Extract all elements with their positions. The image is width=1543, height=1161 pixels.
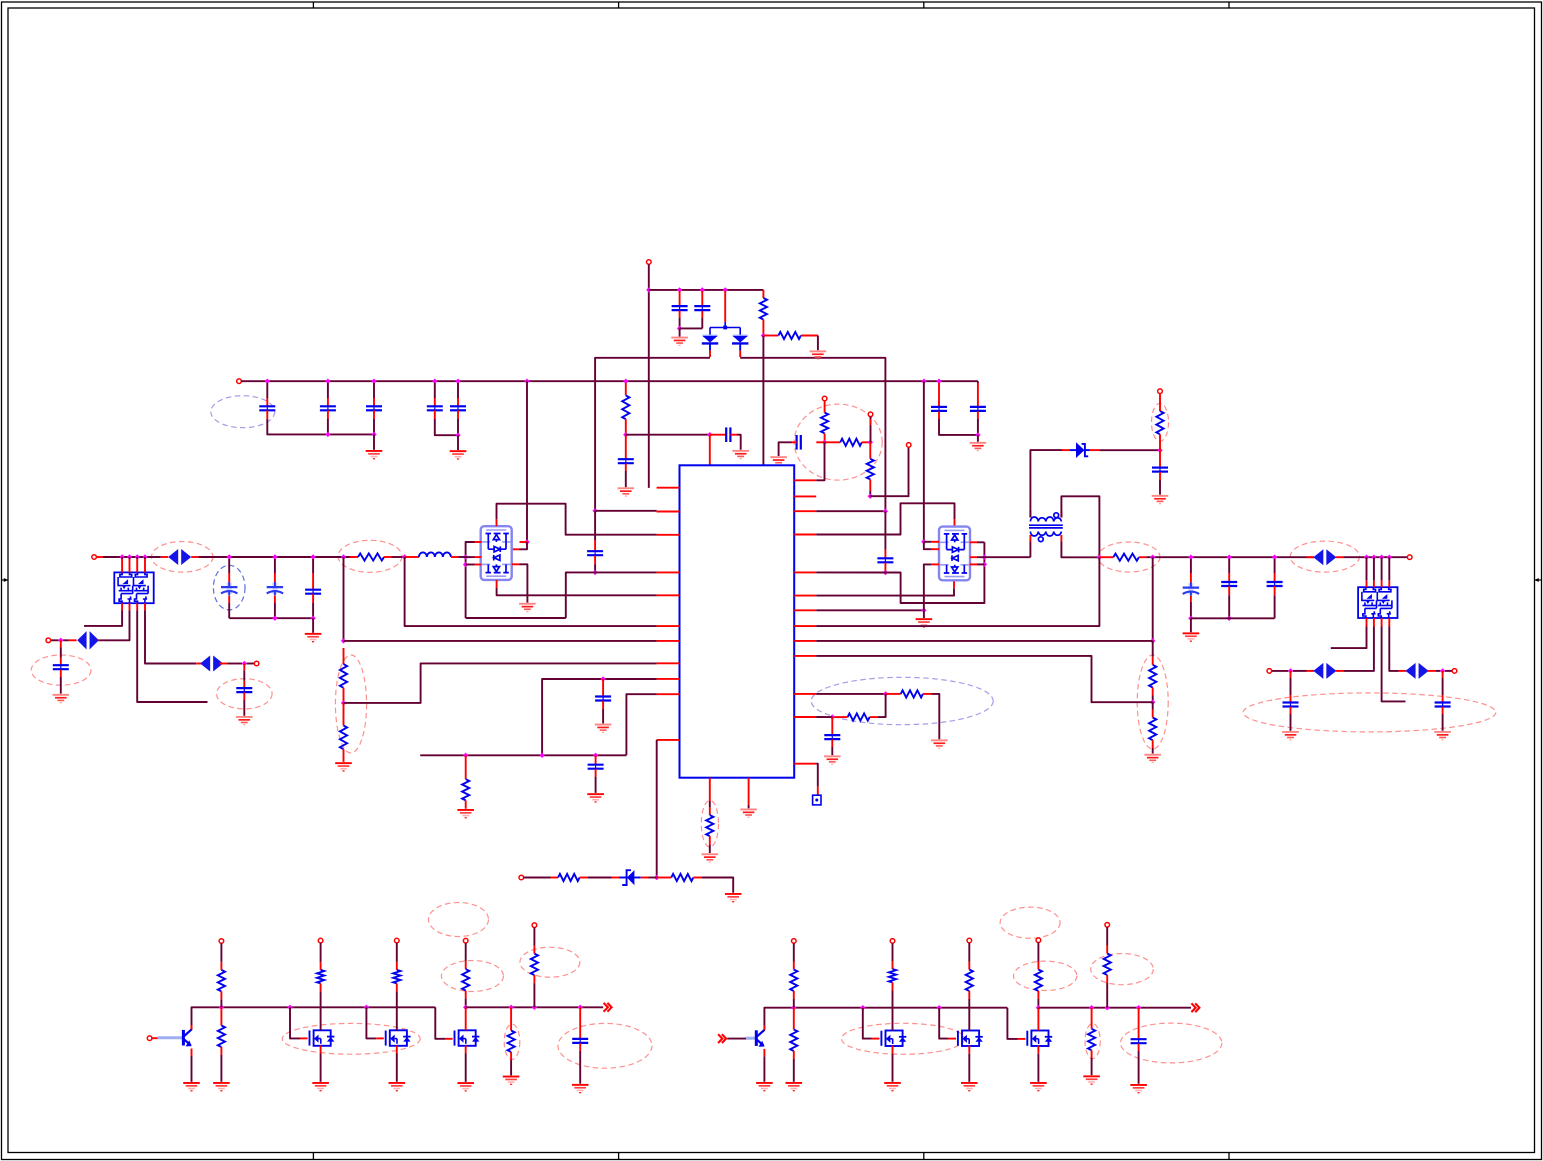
- pin R33 bottom: [1091, 1050, 1093, 1058]
- resistor R15: [1149, 718, 1156, 741]
- port feed R20: [219, 939, 224, 944]
- pin U1 left y595.3: [657, 594, 680, 596]
- junction IC BYP: [707, 432, 712, 437]
- wire L1 to U2: [458, 556, 465, 558]
- pin C15 left: [792, 441, 797, 443]
- wire cap bottom bus: [1191, 617, 1275, 619]
- pin R5c top: [869, 442, 871, 459]
- connector J2 bidirectional arrows: [1313, 549, 1336, 565]
- junction M1 gate tap: [287, 1005, 292, 1010]
- wire C26 feed: [1290, 678, 1292, 695]
- wire T1 top-right to output bus: [1061, 496, 1099, 557]
- wire U5 pin4 to arrow port: [1389, 627, 1398, 671]
- wire R25 from port: [396, 943, 398, 962]
- wire P1 down to IC pin VIN: [648, 264, 650, 488]
- wire R30 from port: [793, 943, 795, 961]
- pin cap top x274.9: [274, 573, 276, 587]
- pin C14 bottom: [977, 411, 979, 419]
- junction C20 tap: [578, 1005, 583, 1010]
- pin R22 top: [533, 946, 535, 954]
- wire to port: [247, 663, 255, 665]
- wire R21 to bus dot: [465, 999, 467, 1008]
- node diode link: [723, 326, 727, 330]
- junction R32 tap: [1105, 1005, 1110, 1010]
- ground GND2: [810, 350, 827, 359]
- pin arrow left2: [196, 663, 204, 665]
- wire C26 to ground: [1290, 714, 1292, 731]
- junction C16 bottom: [592, 570, 597, 575]
- wire node A down to C16: [594, 511, 596, 540]
- resistor R22: [531, 954, 538, 976]
- pin R5c bottom: [869, 479, 871, 491]
- wire C11 feed: [243, 671, 245, 681]
- wire R31 from port: [1037, 943, 1039, 962]
- junction M3 drain: [463, 1005, 468, 1010]
- pin U1 left y534.8: [657, 534, 680, 536]
- transistor M6 N-MOSFET: [1027, 1031, 1048, 1047]
- transistor M2 N-MOSFET: [386, 1030, 407, 1046]
- pin R20 bottom: [220, 991, 222, 999]
- transistor M3 N-MOSFET: [455, 1030, 476, 1046]
- pin C21 top: [1138, 1008, 1140, 1039]
- pin R11b right: [870, 716, 878, 718]
- transistor U5 quad FET protection block (right): [1358, 587, 1397, 618]
- wire R24 to M1 drain: [320, 991, 322, 1030]
- highlight ellipse around resistor R32: [1091, 954, 1154, 985]
- pin U1 right y626.1: [794, 625, 816, 627]
- wire R22 to bus: [533, 983, 535, 1007]
- capacitor at x434.8: [427, 406, 443, 410]
- pin D1 cathode: [709, 351, 711, 357]
- ground GND23: [236, 716, 253, 725]
- capacitor polarized x274.9: [267, 582, 283, 595]
- wire D1 cathode to node A: [595, 358, 710, 511]
- pin U4 right3: [970, 563, 977, 565]
- pin C28 bottom: [831, 740, 833, 748]
- pin C24 top: [1228, 573, 1230, 582]
- resistor R32: [1104, 954, 1111, 976]
- capacitor C24: [1221, 582, 1237, 586]
- pin arrow right: [1336, 556, 1344, 558]
- highlight ellipse around bulk cap C6: [213, 565, 245, 610]
- pin C13 bottom: [938, 411, 940, 419]
- pin U1 bottom 1: [709, 778, 711, 801]
- ground GND13: [587, 793, 604, 802]
- ground GND21: [1183, 632, 1200, 641]
- highlight ellipse around left bus arrow port: [152, 542, 213, 573]
- pin C18 top: [595, 755, 597, 764]
- wire M6 source to ground: [1037, 1054, 1039, 1082]
- wire cap bottom x313.1: [312, 603, 314, 618]
- junction output bus x1190.9: [1188, 555, 1193, 560]
- wire IC pin to R14/R15 node: [816, 656, 1152, 702]
- pin C23 bottom: [1190, 596, 1192, 602]
- pin M6 source: [1037, 1046, 1039, 1054]
- highlight ellipse around RC network top-right: [794, 404, 882, 480]
- pin M6 gate: [1018, 1038, 1026, 1040]
- junction C13 on VCC bus: [921, 379, 926, 384]
- port P4: [868, 412, 873, 417]
- port chevron in right row: [718, 1034, 726, 1043]
- wire R26 from port: [892, 943, 894, 961]
- port P12: [1267, 669, 1272, 674]
- wire R21b to ground: [220, 1055, 222, 1082]
- wire C27 feed: [1442, 678, 1444, 695]
- pin C24 bottom: [1228, 586, 1230, 595]
- junction R33 tap: [1089, 1005, 1094, 1010]
- pin C22 top: [1159, 450, 1161, 467]
- pin C16 bottom: [594, 556, 596, 565]
- junction bus/U2 b: [463, 562, 468, 567]
- junction C14 on VCC bus: [936, 379, 941, 384]
- ground GND10: [335, 762, 352, 771]
- wire to ground: [679, 328, 681, 336]
- wire HV bus y290: [649, 289, 764, 291]
- resistor R7: [340, 726, 347, 750]
- wire U4 right2: [977, 556, 984, 558]
- pin R1 top: [762, 290, 764, 298]
- wire R20 from port: [220, 943, 222, 962]
- wire EN node to IC left pin: [344, 640, 657, 642]
- wire Q1 collector to bus: [192, 1007, 222, 1030]
- junction C10 tap: [58, 638, 63, 643]
- pin C2 bottom: [679, 311, 681, 319]
- wire C3 bottom link: [680, 327, 703, 329]
- pin R24 top: [320, 962, 322, 970]
- wire cap feed x327.9: [327, 383, 329, 398]
- wire U3 pin1 stub west: [84, 610, 122, 626]
- pin arrow left4: [1399, 670, 1407, 672]
- wire IC pin to U4 top: [816, 503, 954, 534]
- wire U5 pin1 stub west: [1331, 627, 1367, 649]
- ground GND26: [931, 739, 948, 748]
- ground GND35: [756, 1082, 773, 1091]
- resistor R5c: [867, 459, 874, 480]
- port P1 HV input: [647, 260, 652, 265]
- ground GND19: [1152, 495, 1169, 504]
- wire C22 to ground: [1159, 480, 1161, 495]
- wire cap feed x274.9: [274, 559, 276, 573]
- pin U1 left y694.2: [657, 693, 680, 695]
- wire R16 to ground: [709, 845, 711, 853]
- capacitor at x267.3: [259, 406, 275, 410]
- zener diode D4: [619, 870, 641, 885]
- wire R9 to D4: [588, 877, 612, 879]
- pin U1 right y610.3: [794, 609, 816, 611]
- highlight ellipse around right bus arrow port: [1290, 541, 1359, 572]
- diode D1: [702, 336, 718, 351]
- junction C5 on VCC bus: [325, 379, 330, 384]
- wire C23 feed: [1190, 559, 1192, 573]
- junction M5 gate tap: [937, 1005, 942, 1010]
- pin R15 top: [1152, 710, 1154, 718]
- pin R8 top: [465, 755, 467, 779]
- junction R30 tap: [791, 1005, 796, 1010]
- ground GND1: [671, 337, 688, 346]
- resistor R1: [760, 298, 767, 320]
- ground GND40: [1083, 1075, 1100, 1084]
- wire R10 to ground: [702, 878, 733, 893]
- transformer T1: [1029, 513, 1063, 542]
- wire C15 to ground: [779, 442, 792, 456]
- wire arrow to dot: [1293, 670, 1307, 672]
- pin R5a top: [824, 401, 826, 413]
- wire node B down to C19: [884, 511, 886, 549]
- pin C26 stub: [1290, 671, 1292, 678]
- pin M3 drain: [465, 1007, 467, 1030]
- wire down to FB node: [1152, 557, 1154, 641]
- wire M4 source to ground: [892, 1054, 894, 1082]
- pin U1 left y511.5: [657, 511, 680, 513]
- wire C27 to ground: [1442, 714, 1444, 731]
- wire C19 bottom: [884, 571, 886, 573]
- wire Q1 base (light blue): [158, 1036, 183, 1039]
- wire R30 to bus: [793, 999, 795, 1008]
- pin R24 bottom: [320, 983, 322, 991]
- pin C21 bottom: [1138, 1044, 1140, 1051]
- pin U5 top x1389.3: [1388, 581, 1390, 588]
- pin R10 left: [657, 877, 672, 879]
- junction C6b tap: [272, 554, 277, 559]
- port P7: [519, 875, 524, 880]
- inductor L1: [419, 552, 451, 557]
- pin R7 top: [343, 703, 345, 726]
- junction C2 top: [677, 287, 682, 292]
- pin M5 source: [968, 1046, 970, 1054]
- pin R9 right: [580, 877, 588, 879]
- wire C13 bottom link: [939, 419, 978, 435]
- ground GND11: [595, 724, 612, 733]
- pin R11a right: [923, 693, 932, 695]
- pin R14 bottom: [1152, 688, 1154, 696]
- pin U1 right y595.6: [794, 595, 816, 597]
- port P11: [254, 661, 259, 666]
- pin U1 right y496.4: [794, 495, 816, 497]
- wire R1 to IC VCC top pin: [762, 336, 764, 466]
- junction R14/R15: [1150, 700, 1155, 705]
- wire C7 bottom link: [435, 419, 458, 435]
- wire U3 pin3 stub east: [137, 610, 207, 702]
- port P8: [1158, 389, 1163, 394]
- junction R5a/C15/R5b: [822, 440, 827, 445]
- connector J3 bidirectional arrows: [77, 631, 99, 649]
- pin U3 top x122.1: [121, 559, 123, 573]
- wire R23 to ground: [510, 1060, 512, 1075]
- port P10: [46, 638, 51, 643]
- pin R32 bottom: [1106, 975, 1108, 983]
- node A junction: [592, 508, 597, 513]
- wire R32 from port: [1106, 927, 1108, 945]
- port P9 output: [1407, 555, 1412, 560]
- transistor U4 half-bridge MOSFET pair (right): [939, 527, 970, 581]
- wire R22 from port: [533, 928, 535, 946]
- wire IC VOSNS to output bus: [816, 557, 1099, 626]
- pin M6 drain: [1037, 1008, 1039, 1031]
- pin U1 right y572.4: [794, 571, 816, 573]
- capacitor C11: [236, 688, 252, 692]
- pin Q2 base: [746, 1038, 752, 1040]
- resistor R9: [558, 874, 580, 881]
- pin R31 top: [1037, 962, 1039, 970]
- ground GND24: [1282, 731, 1299, 740]
- wire R25 to M2 drain: [396, 991, 398, 1030]
- pin R2 left: [763, 335, 778, 337]
- wire to ground: [1190, 618, 1192, 632]
- ground GND37: [884, 1082, 901, 1091]
- port P13: [1452, 669, 1457, 674]
- wire C23 bottom: [1190, 602, 1192, 619]
- wire R3 to L1: [392, 556, 405, 558]
- highlight ellipse around cap C20: [558, 1023, 652, 1068]
- wire C9 to ground: [625, 471, 627, 487]
- pin T1 top-right: [1060, 511, 1062, 518]
- pin C10 stub: [60, 640, 62, 647]
- pin R20 top: [220, 962, 222, 970]
- port chevron out right row: [1191, 1003, 1199, 1012]
- pin R21 top: [465, 961, 467, 969]
- pin R8 bottom: [465, 800, 467, 808]
- wire M2 source to ground: [396, 1054, 398, 1082]
- pin R1 bottom: [762, 320, 764, 336]
- pin U3 bottom x137.2: [136, 603, 138, 610]
- ground GND33: [503, 1076, 520, 1085]
- pin C20 bottom: [579, 1043, 581, 1051]
- ground GND16: [740, 809, 757, 818]
- connector J5 bidirectional arrows: [1313, 663, 1336, 679]
- pin U1 left y572.4: [657, 571, 680, 573]
- ground GND18: [970, 442, 987, 451]
- ground GND7: [770, 456, 787, 465]
- junction U2 pin D: [524, 539, 529, 544]
- pin U1 left y487.7: [657, 487, 680, 489]
- wire gate bus right row east segment: [1038, 1007, 1191, 1009]
- wire C18 to ground: [595, 777, 597, 793]
- wire U2 right3 to ground: [520, 564, 528, 602]
- pin diode pair feed: [724, 291, 726, 322]
- junction C24 bottom: [1227, 616, 1232, 621]
- pin C10 bottom: [60, 670, 62, 677]
- pin U3 bottom x122.1: [121, 603, 123, 610]
- pin R31 bottom: [1037, 991, 1039, 999]
- pin R21b top: [220, 1007, 222, 1025]
- pin C19 top: [884, 550, 886, 559]
- junction C2/C3 bottom: [677, 326, 682, 331]
- port feed R24: [318, 938, 323, 943]
- junction cap bottoms: [272, 616, 277, 621]
- pin C13 top: [938, 383, 940, 407]
- capacitor C19: [877, 558, 893, 562]
- pin C18 bottom: [595, 769, 597, 777]
- junction cap bottoms b: [310, 616, 315, 621]
- pin T1 bottom-right: [1060, 535, 1062, 542]
- wire P7 to R9: [524, 877, 551, 879]
- wire cap bottom x229.2: [228, 603, 230, 618]
- wire IC pin to R11a node: [816, 693, 885, 695]
- transistor M1 N-MOSFET: [310, 1030, 331, 1046]
- ground GND38: [961, 1082, 978, 1091]
- pin U5 bottom x1373.9: [1373, 618, 1375, 627]
- junction M2 gate tap: [364, 1005, 369, 1010]
- junction C6c tap: [310, 554, 315, 559]
- border zone ticks: [313, 2, 1229, 1160]
- pin R5b left: [825, 441, 841, 443]
- resistor R30b: [790, 1030, 797, 1052]
- empty highlight ellipse left row: [429, 903, 489, 937]
- ground GND31: [389, 1082, 406, 1091]
- wire M2 gate feed: [366, 1007, 376, 1038]
- capacitor C13: [931, 407, 947, 411]
- wire to ground: [373, 434, 375, 449]
- pin R26 top: [892, 961, 894, 969]
- resistor R13: [1113, 554, 1139, 561]
- wire R11a to ground: [932, 694, 940, 739]
- port P14: [147, 1036, 152, 1041]
- port P6 battery left: [92, 555, 97, 560]
- pin Q1 collector: [191, 1025, 193, 1029]
- capacitor at x327.9: [320, 406, 336, 410]
- capacitor C16: [587, 551, 603, 555]
- wire M5 source to ground: [968, 1054, 970, 1082]
- resistor R11b: [848, 714, 870, 721]
- junction U3 feed x137.2: [135, 554, 140, 559]
- transistor M4 N-MOSFET: [881, 1031, 902, 1047]
- wire C10 feed: [60, 648, 62, 658]
- junction output bus x1152.7: [1150, 555, 1155, 560]
- ground GND20: [1144, 754, 1161, 763]
- pin U1 right y693.9: [794, 693, 816, 695]
- junction C3 top: [700, 287, 705, 292]
- pin C12 right: [730, 434, 737, 436]
- junction C7/C8 bottom: [455, 433, 460, 438]
- wire stub U4 left1: [924, 541, 932, 543]
- junction R8 top: [463, 753, 468, 758]
- wire U2 top to IC left pin SW1: [497, 504, 657, 535]
- pin C11 top: [243, 681, 245, 689]
- pin arrow right4: [1428, 670, 1436, 672]
- resistor R14: [1149, 665, 1156, 688]
- net-tie NT1: [813, 795, 821, 805]
- wire M4 gate feed: [863, 1008, 872, 1039]
- pin M3 gate: [445, 1038, 453, 1040]
- wire IC pin east-down to y755: [626, 694, 656, 755]
- highlight ellipse around divider R14/R15: [1137, 655, 1168, 749]
- wire to port: [1272, 670, 1289, 672]
- pin C17 bottom: [602, 701, 604, 709]
- ground GND8: [519, 603, 536, 612]
- pin U1 right y511.2: [794, 510, 816, 512]
- wire M5 gate feed: [939, 1008, 948, 1039]
- pin D2 cathode: [739, 351, 741, 357]
- schottky diode D3: [1070, 442, 1090, 458]
- highlight ellipse around cap C21: [1121, 1023, 1222, 1063]
- pin C9 bottom: [625, 464, 627, 471]
- pin R4 top: [625, 383, 627, 395]
- transistor Q1 PNP: [183, 1030, 191, 1047]
- ground GND28: [183, 1082, 200, 1091]
- wire to port: [1445, 670, 1452, 672]
- junction C6 bottom: [371, 432, 376, 437]
- pin U1 right y655.9: [794, 655, 816, 657]
- pin cap bottom x374.0: [373, 410, 375, 419]
- wire U5 pin2 to arrow port: [1343, 627, 1374, 671]
- wire R4 node to IC BYP pin: [626, 434, 710, 436]
- wire C16 bottom: [594, 565, 596, 573]
- junction to block on VCC bus: [524, 379, 529, 384]
- pin C19 bottom: [884, 563, 886, 571]
- capacitor polarized x229.2: [221, 582, 237, 595]
- pin U2 right3: [512, 563, 520, 565]
- transistor U3 quad FET protection block (left): [114, 572, 153, 603]
